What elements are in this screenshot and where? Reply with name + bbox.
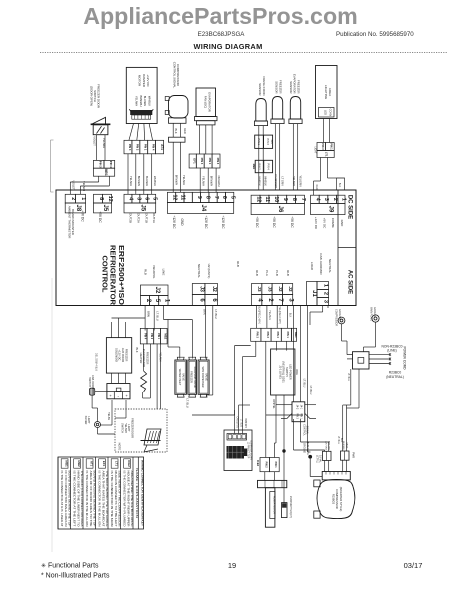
svg-text:IS THE CONNECTOR IN THE MULLIO: IS THE CONNECTOR IN THE MULLION — [85, 471, 88, 527]
svg-text:ERF2500+*ISO: ERF2500+*ISO — [117, 245, 124, 306]
svg-text:WIRING CONNECTOR IDENTIFICATIO: WIRING CONNECTOR IDENTIFICATION KEY — [141, 460, 145, 526]
svg-text:3: 3 — [323, 198, 329, 201]
svg-text:NAME / EXPLANATION: NAME / EXPLANATION — [135, 468, 139, 518]
svg-text:PIN 3: PIN 3 — [266, 139, 269, 146]
svg-text:1: 1 — [80, 197, 86, 200]
svg-text:ABC SIG: ABC SIG — [328, 441, 331, 450]
svg-text:YEL/WH: YEL/WH — [159, 352, 162, 361]
svg-text:(CTRL): (CTRL) — [315, 455, 318, 463]
svg-text:COMPRESSOR: COMPRESSOR — [335, 489, 339, 508]
svg-text:PIN 4: PIN 4 — [266, 163, 269, 170]
svg-text:VALVE: VALVE — [182, 373, 185, 381]
svg-text:✳ Functional Parts: ✳ Functional Parts — [41, 563, 99, 570]
svg-text:LED POWER: LED POWER — [289, 364, 293, 380]
svg-text:PIN 4: PIN 4 — [143, 333, 146, 340]
svg-text:YEL/WH: YEL/WH — [129, 176, 133, 186]
svg-text:J2: J2 — [288, 286, 293, 292]
svg-text:9: 9 — [196, 196, 202, 199]
svg-text:BLU/WH: BLU/WH — [145, 176, 149, 186]
svg-text:13 PIN ICT TOP: 13 PIN ICT TOP — [247, 442, 249, 459]
svg-text:YEL(FIELD WH): YEL(FIELD WH) — [278, 306, 281, 324]
svg-text:11: 11 — [264, 196, 270, 202]
svg-text:YEL/GRN: YEL/GRN — [298, 176, 301, 187]
svg-text:LINE: LINE — [162, 269, 166, 276]
svg-text:MULLION CONNECTS TO THE LEFT: MULLION CONNECTS TO THE LEFT — [114, 471, 117, 528]
svg-text:BLK(FIELD WH): BLK(FIELD WH) — [258, 306, 261, 324]
svg-text:MAIN PLATE: MAIN PLATE — [306, 441, 309, 455]
svg-text:RED: RED — [315, 184, 318, 189]
svg-text:AUGER MOTOR: AUGER MOTOR — [272, 496, 275, 514]
svg-text:11: 11 — [180, 195, 186, 201]
svg-text:POWER CORD: POWER CORD — [403, 346, 407, 370]
svg-text:IS THE CONNECTOR AT R.H. LINER: IS THE CONNECTOR AT R.H. LINER AT — [60, 471, 63, 528]
svg-text:J1-1 (LINE): J1-1 (LINE) — [278, 365, 282, 378]
svg-text:HEATER: HEATER — [139, 353, 143, 364]
svg-text:PIN 1: PIN 1 — [157, 333, 160, 340]
svg-text:MB1: MB1 — [65, 460, 69, 467]
svg-text:OUT2A: OUT2A — [136, 213, 140, 223]
svg-text:CONTROL SIGNAL: CONTROL SIGNAL — [172, 62, 176, 89]
svg-text:PIN 3: PIN 3 — [256, 332, 259, 339]
svg-text:PIN 1: PIN 1 — [257, 139, 260, 146]
svg-text:SENSOR: SENSOR — [289, 81, 293, 93]
svg-text:YEL/WH: YEL/WH — [292, 176, 295, 186]
svg-text:PIN 3: PIN 3 — [128, 144, 132, 151]
svg-text:WTR DISPENSER: WTR DISPENSER — [201, 367, 204, 388]
svg-text:A/C VR3: A/C VR3 — [325, 441, 328, 450]
svg-text:3: 3 — [323, 300, 329, 303]
svg-text:BRN/WH: BRN/WH — [139, 96, 143, 107]
svg-text:WH/BLK: WH/BLK — [147, 96, 151, 107]
svg-text:(NEUTRAL): (NEUTRAL) — [386, 375, 404, 379]
svg-text:GND: GND — [180, 218, 184, 226]
svg-text:COMM.: COMM. — [331, 218, 335, 228]
svg-text:5: 5 — [229, 196, 235, 199]
svg-text:BLK: BLK — [338, 183, 341, 188]
svg-text:COMPRESSOR: COMPRESSOR — [335, 309, 338, 327]
svg-text:PIN 4: PIN 4 — [216, 158, 220, 165]
svg-text:AppliancePartsPros.com: AppliancePartsPros.com — [83, 3, 357, 29]
svg-text:BLK: BLK — [289, 313, 292, 318]
svg-text:FREEZER: FREEZER — [125, 349, 129, 362]
svg-text:E23BC68JPSGA: E23BC68JPSGA — [198, 31, 246, 38]
svg-text:+12V DC: +12V DC — [204, 215, 208, 229]
svg-text:CONN: CONN — [329, 109, 333, 117]
svg-text:YEL/W: YEL/W — [107, 412, 110, 420]
svg-text:CONTROL: CONTROL — [303, 424, 306, 436]
svg-text:7: 7 — [213, 196, 219, 199]
svg-text:+5V DC: +5V DC — [81, 210, 85, 222]
svg-text:WH/BLK: WH/BLK — [258, 176, 261, 186]
svg-text:J6: J6 — [277, 206, 283, 213]
svg-text:PIN 4: PIN 4 — [276, 332, 279, 339]
svg-text:J4-1: J4-1 — [300, 405, 302, 410]
svg-text:12: 12 — [171, 194, 177, 200]
svg-text:J5: J5 — [139, 205, 145, 212]
svg-text:* Non-Illustrated Parts: * Non-Illustrated Parts — [41, 573, 110, 580]
svg-text:SUPPLY: SUPPLY — [285, 367, 289, 377]
svg-text:10: 10 — [273, 196, 279, 202]
svg-text:VIOLET: VIOLET — [72, 180, 76, 190]
svg-text:R23BC0: R23BC0 — [332, 494, 336, 505]
svg-text:03/17: 03/17 — [404, 561, 423, 570]
svg-text:PIN 4: PIN 4 — [109, 161, 113, 168]
svg-text:+12V DC: +12V DC — [118, 350, 122, 361]
svg-text:J3: J3 — [198, 286, 204, 292]
svg-text:LT GRN/WH: LT GRN/WH — [274, 174, 277, 188]
svg-text:9: 9 — [282, 198, 288, 201]
svg-text:J4: J4 — [200, 205, 206, 212]
svg-text:LT1: LT1 — [325, 152, 329, 157]
svg-text:IS THE CONNECTOR IN THE MAIN: IS THE CONNECTOR IN THE MAIN — [110, 471, 113, 527]
svg-text:WH/YEL: WH/YEL — [272, 399, 275, 409]
svg-text:19: 19 — [228, 561, 236, 570]
svg-text:YEL/WH: YEL/WH — [82, 181, 86, 191]
svg-text:5: 5 — [151, 197, 157, 200]
svg-text:RLB: RLB — [236, 261, 240, 267]
svg-text:ICE2: ICE2 — [127, 460, 131, 467]
svg-text:RED: RED — [183, 128, 187, 134]
svg-text:(NEUTRAL) GD21: (NEUTRAL) GD21 — [282, 361, 286, 383]
svg-text:8: 8 — [291, 198, 297, 201]
svg-text:BRN/WH: BRN/WH — [209, 176, 213, 187]
svg-text:(INVERTER STYLE): (INVERTER STYLE) — [339, 487, 343, 512]
svg-text:LT1: LT1 — [115, 461, 119, 466]
svg-text:RLB: RLB — [144, 269, 148, 275]
svg-text:MB1: MB1 — [252, 164, 256, 170]
svg-text:PIN 2: PIN 2 — [266, 332, 269, 339]
svg-text:SOLENOID: SOLENOID — [114, 348, 118, 362]
svg-text:PIN 1: PIN 1 — [300, 413, 302, 419]
svg-text:ICEMAKER CONN: ICEMAKER CONN — [249, 440, 252, 460]
svg-text:(LINE): (LINE) — [387, 349, 397, 353]
svg-text:MB1: MB1 — [294, 332, 298, 338]
svg-text:J2: J2 — [154, 287, 160, 294]
svg-text:NEUTRAL: NEUTRAL — [328, 259, 332, 273]
svg-text:PIN 1: PIN 1 — [144, 144, 148, 151]
svg-text:LT. BLU: LT. BLU — [347, 373, 350, 382]
svg-text:PIN 2: PIN 2 — [136, 144, 140, 151]
svg-text:REFRIGERATOR: REFRIGERATOR — [109, 245, 116, 305]
svg-text:WH/BLK: WH/BLK — [264, 176, 267, 186]
svg-text:SWITCH: SWITCH — [88, 377, 91, 387]
svg-text:IS THE CONNECTOR AT THE LEFT: IS THE CONNECTOR AT THE LEFT — [73, 471, 76, 528]
svg-text:WIRING DIAGRAM: WIRING DIAGRAM — [193, 42, 262, 51]
svg-text:LED: LED — [324, 110, 328, 115]
svg-text:SENSOR: SENSOR — [275, 81, 279, 93]
svg-text:BRN: BRN — [147, 311, 151, 317]
svg-text:U2 (GSP1): U2 (GSP1) — [207, 264, 211, 279]
svg-text:AT1: AT1 — [90, 461, 94, 467]
svg-text:7: 7 — [300, 198, 306, 201]
svg-text:1: 1 — [340, 198, 346, 201]
svg-text:PIN 1: PIN 1 — [208, 158, 212, 165]
svg-text:MB2: MB2 — [164, 333, 168, 339]
svg-text:PLB: PLB — [275, 270, 279, 276]
svg-text:ORG (ITV): ORG (ITV) — [236, 417, 238, 428]
svg-text:HOUSE AT THE RIGHT REAR UPPER: HOUSE AT THE RIGHT REAR UPPER — [126, 471, 129, 527]
svg-text:FREEZER: FREEZER — [190, 371, 193, 383]
svg-text:ORG/WH: ORG/WH — [217, 176, 221, 187]
svg-text:J2: J2 — [211, 286, 217, 292]
svg-text:OUT2B: OUT2B — [129, 213, 133, 223]
svg-text:LT. BLU: LT. BLU — [186, 398, 190, 407]
svg-text:PLA: PLA — [265, 270, 269, 276]
svg-text:LIGHTING: LIGHTING — [324, 85, 328, 100]
svg-text:PIN 2: PIN 2 — [150, 333, 153, 340]
svg-text:NOTE: NOTE — [118, 443, 122, 451]
svg-text:LT. BLU: LT. BLU — [156, 311, 160, 320]
svg-text:FAN (DC): FAN (DC) — [204, 96, 208, 109]
svg-text:+12V DC: +12V DC — [314, 217, 318, 230]
svg-text:1: 1 — [323, 284, 329, 287]
svg-text:23A48 WATTER (CT): 23A48 WATTER (CT) — [289, 496, 292, 518]
svg-text:PIN 2: PIN 2 — [265, 462, 268, 469]
svg-text:MAIN PLATE: MAIN PLATE — [370, 307, 373, 321]
svg-text:BLU/WH: BLU/WH — [143, 96, 147, 107]
svg-text:AMBIENT THERMISTOR: AMBIENT THERMISTOR — [68, 206, 72, 239]
svg-text:AT1: AT1 — [160, 144, 164, 150]
svg-text:LOAD: LOAD — [310, 262, 314, 271]
svg-text:OUT1A: OUT1A — [152, 213, 156, 223]
svg-text:PIN 2: PIN 2 — [258, 163, 261, 170]
svg-text:+12V DC: +12V DC — [172, 215, 176, 229]
svg-text:LT. BLU: LT. BLU — [214, 309, 218, 318]
svg-text:(DOOR OPEN): (DOOR OPEN) — [89, 86, 93, 106]
svg-text:LT. BLU: LT. BLU — [240, 419, 242, 427]
svg-text:VALVE: VALVE — [204, 373, 207, 381]
svg-text:+5V DC: +5V DC — [272, 216, 276, 228]
svg-text:6: 6 — [221, 196, 227, 199]
svg-text:2: 2 — [323, 292, 329, 295]
svg-text:PIN 1: PIN 1 — [330, 143, 333, 150]
svg-text:PIN 4: PIN 4 — [152, 144, 156, 151]
svg-text:YEL/WH: YEL/WH — [135, 96, 139, 106]
svg-text:SIGNAL: SIGNAL — [306, 426, 309, 435]
svg-text:YEL/BLK: YEL/BLK — [268, 310, 271, 320]
svg-text:DEL DOM 4 BLK: DEL DOM 4 BLK — [95, 353, 98, 371]
svg-text:2: 2 — [332, 198, 338, 201]
svg-text:SILVER: SILVER — [84, 416, 87, 425]
svg-text:RLB: RLB — [286, 270, 290, 276]
svg-text:LT. BLU: LT. BLU — [309, 386, 312, 395]
svg-text:J4-2: J4-2 — [296, 405, 298, 410]
svg-text:SWITCH: SWITCH — [121, 423, 124, 433]
svg-text:EF1: EF1 — [102, 461, 106, 467]
svg-text:12: 12 — [255, 196, 261, 202]
svg-text:SENSOR: SENSOR — [258, 83, 262, 95]
svg-text:ORG: ORG — [295, 369, 298, 375]
svg-text:AREA THAT MATES THE BOARD AT: AREA THAT MATES THE BOARD AT — [101, 471, 104, 528]
svg-text:12: 12 — [107, 196, 113, 202]
svg-text:PIN 1: PIN 1 — [286, 332, 289, 339]
svg-text:Publication No. 5995685970: Publication No. 5995685970 — [336, 31, 414, 38]
svg-text:NEU/PRL: NEU/PRL — [152, 265, 156, 278]
svg-text:6: 6 — [144, 197, 150, 200]
svg-text:MB1: MB1 — [104, 169, 108, 176]
svg-text:GROUND: GROUND — [303, 443, 305, 454]
svg-text:PIN 2: PIN 2 — [296, 413, 298, 419]
svg-text:CONTROL: CONTROL — [100, 256, 107, 294]
svg-text:MB2: MB2 — [77, 460, 81, 467]
svg-text:RLB: RLB — [255, 270, 259, 276]
svg-text:BRN/WH: BRN/WH — [244, 418, 246, 428]
svg-text:BLK: BLK — [340, 438, 343, 443]
svg-text:PWR: PWR — [352, 452, 355, 458]
svg-text:+5V DC: +5V DC — [255, 216, 259, 228]
svg-text:LT. BLU: LT. BLU — [303, 379, 306, 388]
svg-text:MOTOR: MOTOR — [138, 75, 142, 87]
svg-text:YEL/WH: YEL/WH — [102, 138, 106, 148]
svg-text:VIOLET: VIOLET — [93, 136, 97, 146]
svg-text:ICE2: ICE2 — [256, 460, 260, 467]
svg-text:YEL/WH: YEL/WH — [182, 175, 186, 185]
svg-text:BRN/WH: BRN/WH — [137, 176, 141, 187]
svg-text:LIGHT: LIGHT — [314, 146, 317, 154]
svg-text:+5V DC: +5V DC — [290, 216, 294, 228]
svg-text:3: 3 — [136, 197, 142, 200]
svg-text:GROUND: GROUND — [373, 307, 376, 318]
svg-text:J9: J9 — [327, 206, 333, 213]
svg-text:YEL/WH: YEL/WH — [201, 176, 205, 186]
svg-text:PIN 3: PIN 3 — [321, 143, 324, 150]
svg-text:IS THE CONNECTOR WITH PLUMBED: IS THE CONNECTOR WITH PLUMBED — [123, 471, 126, 527]
svg-text:+5V DC: +5V DC — [323, 218, 327, 229]
svg-text:AC SIDE: AC SIDE — [347, 270, 353, 294]
svg-text:LT. BLU: LT. BLU — [337, 436, 340, 445]
svg-text:LT GRN: LT GRN — [280, 177, 283, 186]
svg-text:PIN 3: PIN 3 — [99, 161, 103, 168]
svg-text:A/S: A/S — [270, 140, 273, 144]
svg-text:NEUTRAL: NEUTRAL — [197, 264, 201, 278]
svg-text:WH/BLK: WH/BLK — [153, 176, 157, 186]
svg-text:PIN 1: PIN 1 — [274, 462, 277, 469]
svg-text:4: 4 — [128, 197, 134, 200]
svg-text:4: 4 — [315, 198, 321, 201]
svg-text:BRN/WH: BRN/WH — [174, 175, 178, 186]
svg-text:GND: GND — [340, 220, 344, 228]
svg-text:DC SIDE: DC SIDE — [347, 195, 353, 219]
svg-text:BLK: BLK — [135, 347, 139, 352]
svg-text:BLK: BLK — [174, 129, 178, 134]
svg-text:8: 8 — [205, 196, 211, 199]
svg-text:IS THE CONNECTOR IN THE MULLIO: IS THE CONNECTOR IN THE MULLION — [98, 471, 101, 527]
svg-text:PIN 3: PIN 3 — [200, 158, 204, 165]
svg-text:CAB. GROUND: CAB. GROUND — [319, 253, 323, 275]
svg-text:AUX DOOR: AUX DOOR — [121, 348, 125, 362]
svg-text:+5V DC: +5V DC — [98, 211, 102, 223]
svg-text:J1: J1 — [311, 290, 317, 297]
svg-text:WATER INLET: WATER INLET — [178, 369, 181, 386]
svg-text:GROUND: GROUND — [338, 309, 341, 320]
svg-text:SOLENOID VALVE: SOLENOID VALVE — [193, 366, 196, 388]
svg-text:OUT1B: OUT1B — [144, 213, 148, 223]
svg-text:HAND SIDE OF THE LINER NEXT TO: HAND SIDE OF THE LINER NEXT TO — [76, 471, 79, 527]
svg-text:BRN: BRN — [202, 309, 206, 315]
svg-text:+12V DC: +12V DC — [221, 215, 225, 229]
svg-text:FF FXD CONNECTOR MALE GOES IN: FF FXD CONNECTOR MALE GOES IN — [64, 471, 67, 527]
svg-text:AREA OF FF DOOR GOES TO THE: AREA OF FF DOOR GOES TO THE — [89, 471, 92, 527]
